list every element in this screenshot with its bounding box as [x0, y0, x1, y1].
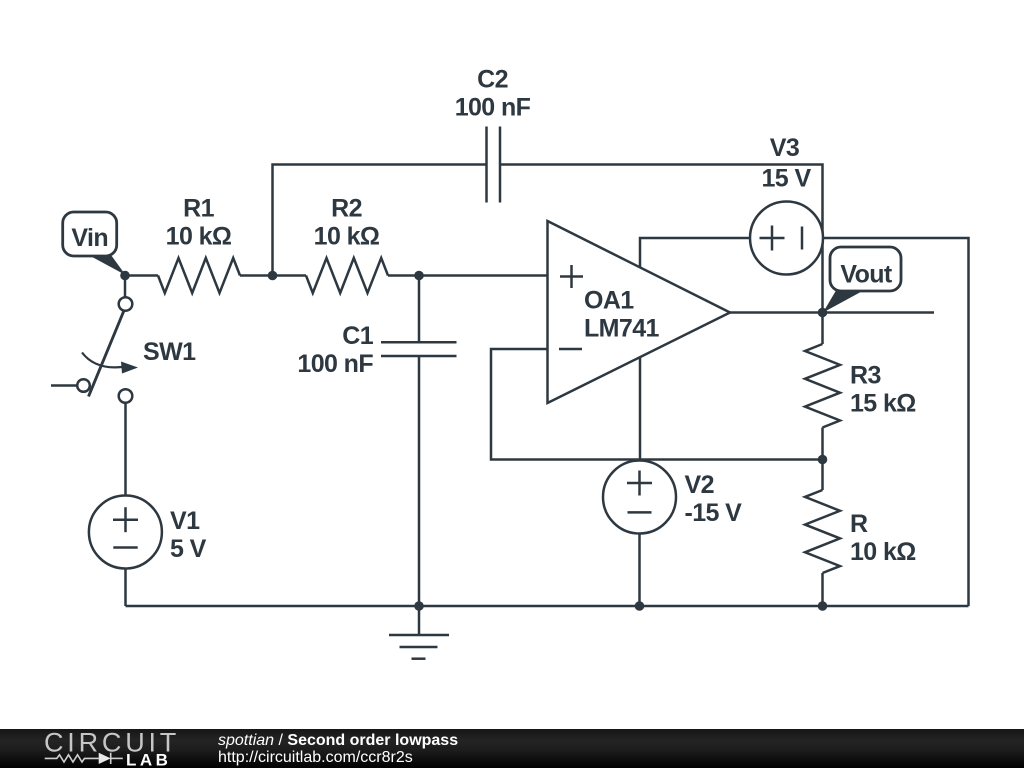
svg-text:10 kΩ: 10 kΩ	[850, 538, 916, 566]
svg-text:Vout: Vout	[840, 261, 893, 289]
junction: R1/R2/C2	[268, 271, 278, 281]
svg-text:15 kΩ: 15 kΩ	[850, 390, 916, 418]
wire: V2 to ground rail	[638, 534, 641, 607]
svg-text:-15 V: -15 V	[685, 499, 743, 527]
svg-text:V1: V1	[170, 507, 200, 535]
wire: Vin node to R1	[125, 274, 158, 277]
junction: R bottom	[818, 601, 828, 611]
wire: V1 to bottom rail	[124, 569, 127, 607]
wire: R2/C1 node to op-amp, C1 top lead	[418, 276, 421, 343]
ground	[389, 606, 449, 659]
svg-text:R2: R2	[331, 195, 362, 223]
capacitor C2	[455, 66, 531, 203]
svg-text:LAB: LAB	[126, 751, 171, 768]
op-amp OA1	[548, 221, 731, 403]
node Vin flag	[63, 212, 126, 275]
wire: op-amp output	[730, 311, 934, 314]
svg-text:V3: V3	[770, 134, 799, 162]
svg-text:15 V: 15 V	[761, 165, 811, 193]
wire: C2 to output node	[500, 165, 823, 313]
voltage source V3	[750, 134, 823, 275]
svg-text:SW1: SW1	[143, 338, 196, 366]
resistor R2	[306, 195, 388, 294]
svg-text:100 nF: 100 nF	[297, 350, 373, 378]
resistor R	[805, 460, 916, 607]
voltage source V2	[603, 461, 742, 534]
svg-text:10 kΩ: 10 kΩ	[314, 223, 380, 251]
wire: op-amp V- pin to V2	[639, 357, 642, 462]
wire: switch left contact stub	[51, 384, 77, 387]
footer bar	[0, 729, 1024, 768]
svg-text:10 kΩ: 10 kΩ	[166, 223, 232, 251]
resistor R1	[158, 195, 240, 294]
svg-text:R: R	[850, 510, 868, 538]
svg-text:100 nF: 100 nF	[455, 94, 531, 122]
junction: R3/R feedback	[818, 455, 828, 465]
junction: V2 bottom	[635, 601, 645, 611]
switch SW1	[77, 276, 196, 403]
svg-text:C1: C1	[342, 322, 373, 350]
wire: switch to V1	[124, 403, 127, 496]
svg-text:Vin: Vin	[71, 224, 108, 252]
junction: R2/C1/op-amp	[414, 271, 424, 281]
CircuitLab logo	[0, 729, 200, 768]
svg-text:V2: V2	[685, 471, 714, 499]
wire: R1 to R2	[240, 274, 306, 277]
svg-text:C2: C2	[477, 66, 508, 94]
wire: bottom ground rail	[126, 605, 969, 608]
svg-text:R3: R3	[850, 362, 881, 390]
wire: C1 bottom lead	[418, 356, 421, 606]
wire: feedback from op-amp - input	[491, 349, 823, 460]
junction: Vin node	[120, 271, 130, 281]
wire: V3 to right rail	[823, 238, 969, 606]
junction: output node	[818, 308, 828, 318]
capacitor C1	[297, 322, 456, 378]
node Vout flag	[823, 247, 901, 313]
resistor R3	[805, 313, 916, 460]
svg-text:LM741: LM741	[584, 315, 660, 343]
junction: ground node	[414, 601, 424, 611]
voltage source V1	[89, 496, 207, 569]
wire: junction up to C2	[273, 165, 487, 276]
svg-text:OA1: OA1	[584, 287, 634, 315]
svg-text:5 V: 5 V	[170, 535, 207, 563]
svg-text:R1: R1	[183, 195, 214, 223]
wire: op-amp V+ pin	[640, 238, 750, 268]
wire: R2 to op-amp + input	[388, 274, 548, 277]
